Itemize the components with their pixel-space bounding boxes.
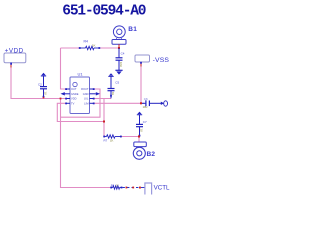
svg-text:GNDE: GNDE: [71, 92, 79, 96]
svg-text:LIM: LIM: [84, 101, 88, 105]
svg-text:GND: GND: [83, 92, 89, 96]
wire U1 left row4 under-IC loop: [57, 103, 104, 121]
capacitor C5: [108, 76, 120, 98]
node rail junction: [60, 98, 62, 100]
net arrow right: [153, 101, 168, 106]
wire U1 right row3 to C5 and down to R7: [94, 98, 112, 100]
svg-text:LVL: LVL: [84, 97, 89, 101]
svg-text:C5: C5: [115, 80, 119, 84]
power arrow above C7: [137, 112, 142, 115]
svg-text:B1: B1: [128, 26, 137, 33]
capacitor C4: [116, 48, 125, 70]
buzzer B1: [112, 26, 137, 48]
svg-text:B2: B2: [147, 151, 156, 158]
svg-text:651-0594-A0: 651-0594-A0: [62, 4, 146, 20]
svg-text:VDD: VDD: [71, 97, 77, 101]
power flag +VDD: [4, 47, 26, 67]
wire -VSS drop: [140, 64, 142, 103]
svg-text:1U: 1U: [140, 129, 144, 132]
wire U1 right row4 VSS rail: [94, 102, 145, 104]
capacitor C6: [142, 97, 153, 109]
resistor R8: [110, 183, 122, 189]
capacitor C2: [38, 76, 48, 98]
wire R4 right to B1: [99, 47, 119, 49]
svg-text:10U: 10U: [119, 62, 123, 67]
power flag -VSS: [135, 55, 169, 67]
svg-text:OUT: OUT: [71, 87, 77, 91]
U1 pin names: [71, 87, 89, 105]
svg-text:C4: C4: [121, 52, 125, 56]
ground below C4: [115, 70, 122, 74]
svg-text:TV: TV: [71, 101, 75, 105]
wire VDD rail: [11, 66, 66, 99]
svg-text:C2: C2: [38, 83, 42, 87]
U1 right pins: [90, 88, 101, 104]
wire R4 to U1 pin: [61, 48, 67, 89]
capacitor C7: [136, 115, 147, 137]
node VSS junction: [140, 102, 142, 104]
svg-text:R7: R7: [104, 139, 108, 143]
node B1 junction: [118, 47, 120, 49]
wire vertical to R7: [103, 99, 105, 137]
node B2 junction: [138, 136, 140, 138]
node R7 top junction: [103, 121, 105, 123]
resistor R7: [103, 135, 122, 143]
wire rail junction down to VCTL resistor: [61, 99, 112, 188]
wire R4 left: [61, 47, 81, 49]
power arrow above C2: [41, 73, 46, 76]
svg-text:U1: U1: [78, 72, 84, 77]
svg-text:10U: 10U: [143, 105, 148, 109]
IC U1: [61, 72, 101, 114]
resistor R4: [79, 40, 100, 50]
svg-text:ROUT: ROUT: [81, 87, 89, 91]
svg-text:C7: C7: [143, 120, 147, 124]
U1 left pins: [61, 88, 71, 104]
wire R7 right to B2 node: [121, 136, 139, 138]
svg-text:-VSS: -VSS: [153, 57, 170, 64]
port VCTL: [145, 183, 170, 195]
svg-text:VCTL: VCTL: [154, 185, 170, 192]
svg-text:R4: R4: [84, 40, 89, 44]
svg-text:1U: 1U: [44, 92, 48, 95]
wire B2 drop: [138, 137, 140, 143]
buzzer B2: [133, 142, 155, 159]
svg-text:1K: 1K: [110, 139, 114, 143]
wire U1 right row1 loop to VCTL drop: [61, 89, 101, 117]
wire dashed to VCTL port: [123, 187, 145, 189]
power arrow above C5: [108, 73, 113, 76]
